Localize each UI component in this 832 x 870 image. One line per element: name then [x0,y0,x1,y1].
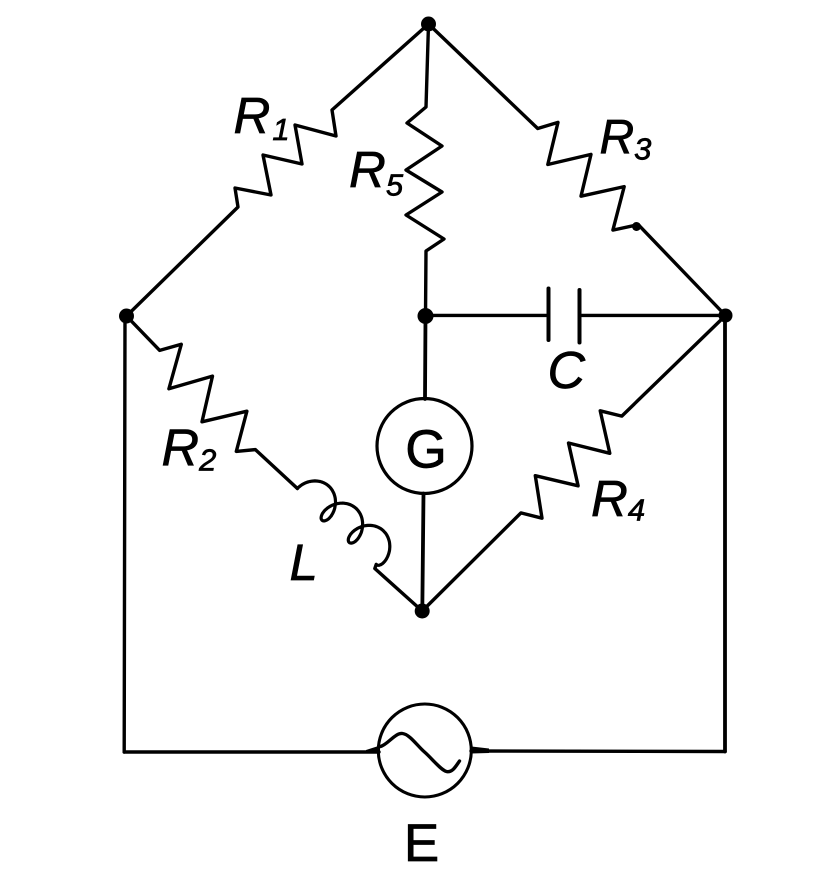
resistor R2 [127,316,298,489]
wire center node to capacitor [426,314,548,317]
galvanometer G circle [377,399,472,494]
wire right node down [723,316,727,752]
blob wire meets source right [472,747,490,754]
blob wire meets source left [366,746,380,754]
node bottom [415,604,430,619]
svg-text:C: C [548,342,586,400]
svg-text:G: G [405,421,447,480]
node left [119,309,134,324]
blob at R3 lower end [632,222,641,231]
AC source E circle [378,704,471,797]
svg-text:E: E [404,814,439,870]
wire left node down [122,316,126,752]
resistor R4 [422,316,725,612]
node center [418,308,434,324]
node right [719,309,733,323]
svg-text:L: L [290,534,318,591]
capacitor C plate right [578,290,582,343]
AC source sine wave [381,733,460,771]
wire galvanometer to bottom node [422,494,423,612]
wire inductor to bottom node [375,565,422,612]
inductor L coil [297,481,389,565]
resistor R5 [406,24,444,316]
wire center node to galvanometer [423,316,427,399]
wire bottom rail left [124,750,379,753]
node top [421,17,436,32]
resistor R1 [127,24,429,316]
resistor R3 [429,24,726,316]
capacitor C plate left [547,289,551,341]
wire bottom rail right [471,749,725,753]
wire capacitor to right node [581,314,726,317]
